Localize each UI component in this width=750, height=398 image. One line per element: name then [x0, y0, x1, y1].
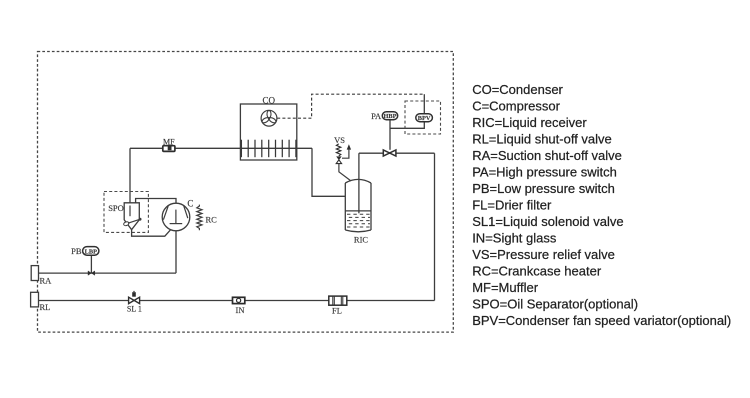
suction shut-off valve RA [31, 266, 38, 281]
SPO float valve [123, 218, 141, 227]
svg-text:C: C [187, 198, 193, 208]
svg-text:MF: MF [163, 138, 175, 147]
PB tap service valve [88, 271, 95, 275]
oil separator SPO dashed box [104, 192, 148, 233]
svg-text:IN: IN [236, 305, 245, 315]
wire: PA pressure tap [389, 120, 391, 150]
wire: liquid line from receiver to riser [359, 152, 435, 154]
wire: receiver dip tube [358, 153, 360, 213]
pressure relief valve VS [336, 144, 341, 164]
liquid receiver RIC [345, 179, 371, 231]
svg-text:IN=Sight glass: IN=Sight glass [472, 230, 557, 245]
svg-text:CO: CO [263, 95, 276, 105]
oil separator SPO vessel [124, 203, 139, 230]
VS branch to receiver [339, 164, 351, 181]
svg-text:CO=Condenser: CO=Condenser [472, 82, 563, 97]
svg-text:RIC=Liquid receiver: RIC=Liquid receiver [472, 115, 587, 130]
drier filter FL [329, 296, 347, 305]
svg-text:RC=Crankcase heater: RC=Crankcase heater [472, 263, 602, 278]
svg-text:RL: RL [40, 302, 51, 312]
compressor C [162, 203, 190, 231]
wire: suction line from RA to compressor [39, 231, 177, 273]
svg-text:PB: PB [71, 246, 82, 256]
wire: condenser outlet to receiver [312, 148, 345, 196]
svg-text:FL=Drier filter: FL=Drier filter [472, 197, 552, 212]
sight glass IN [233, 297, 245, 303]
svg-text:SPO: SPO [108, 203, 124, 213]
svg-text:PA: PA [371, 111, 382, 121]
condenser fan [261, 110, 277, 126]
wire: PB pressure tap [90, 255, 92, 273]
enclosure dashed border [38, 52, 454, 333]
svg-text:VS: VS [334, 135, 345, 145]
legend text [472, 82, 731, 328]
liquid shut-off valve RL [31, 292, 39, 307]
muffler MF [163, 146, 175, 152]
svg-text:SPO=Oil Separator(optional): SPO=Oil Separator(optional) [472, 296, 638, 311]
low pressure switch PB oval [83, 247, 99, 256]
svg-text:RA=Suction shut-off valve: RA=Suction shut-off valve [472, 148, 622, 163]
wire: liquid line bottom run [39, 300, 435, 302]
wire: discharge line through muffler and condenser [130, 147, 312, 149]
wire: BPV top drop [423, 94, 425, 113]
receiver outlet shut-off valve [383, 150, 396, 156]
high pressure switch PA oval [382, 112, 397, 121]
liquid solenoid valve SL1 [129, 291, 140, 304]
svg-text:SL1=Liquid solenoid valve: SL1=Liquid solenoid valve [472, 214, 623, 229]
svg-text:RC: RC [206, 214, 218, 224]
BPV oval [416, 114, 433, 123]
wire: BPV to PA line link [390, 122, 424, 129]
svg-text:RA: RA [40, 275, 53, 285]
svg-text:C=Compressor: C=Compressor [472, 98, 560, 113]
svg-text:RIC: RIC [354, 235, 369, 245]
crankcase heater RC [197, 205, 202, 231]
VS relief outlet with arrow [342, 144, 351, 158]
svg-text:FL: FL [332, 306, 342, 316]
SPO internal dip tube [129, 206, 131, 217]
svg-text:PA=High pressure switch: PA=High pressure switch [472, 164, 617, 179]
condenser CO box [240, 104, 296, 160]
wire: SPO outlet riser to muffler line [129, 148, 131, 215]
svg-text:LBP: LBP [85, 249, 97, 256]
svg-text:HBP: HBP [384, 113, 397, 120]
svg-text:SL 1: SL 1 [127, 305, 142, 314]
svg-text:MF=Muffler: MF=Muffler [472, 280, 539, 295]
condenser fins [241, 140, 296, 158]
wire: SPO oil return to compressor [132, 230, 171, 237]
svg-text:RL=Liquid shut-off valve: RL=Liquid shut-off valve [472, 131, 612, 146]
svg-text:PB=Low pressure switch: PB=Low pressure switch [472, 181, 615, 196]
wire: compressor discharge to SPO inlet [136, 199, 176, 204]
wire: liquid line right riser [434, 153, 436, 300]
svg-text:BPV: BPV [418, 115, 431, 122]
svg-text:VS=Pressure relief valve: VS=Pressure relief valve [472, 247, 615, 262]
svg-text:BPV=Condenser fan speed variat: BPV=Condenser fan speed variator(optiona… [472, 313, 731, 328]
wire: dashed fan control line to BPV [277, 94, 424, 118]
condenser fan speed variator BPV dashed box [405, 101, 441, 134]
